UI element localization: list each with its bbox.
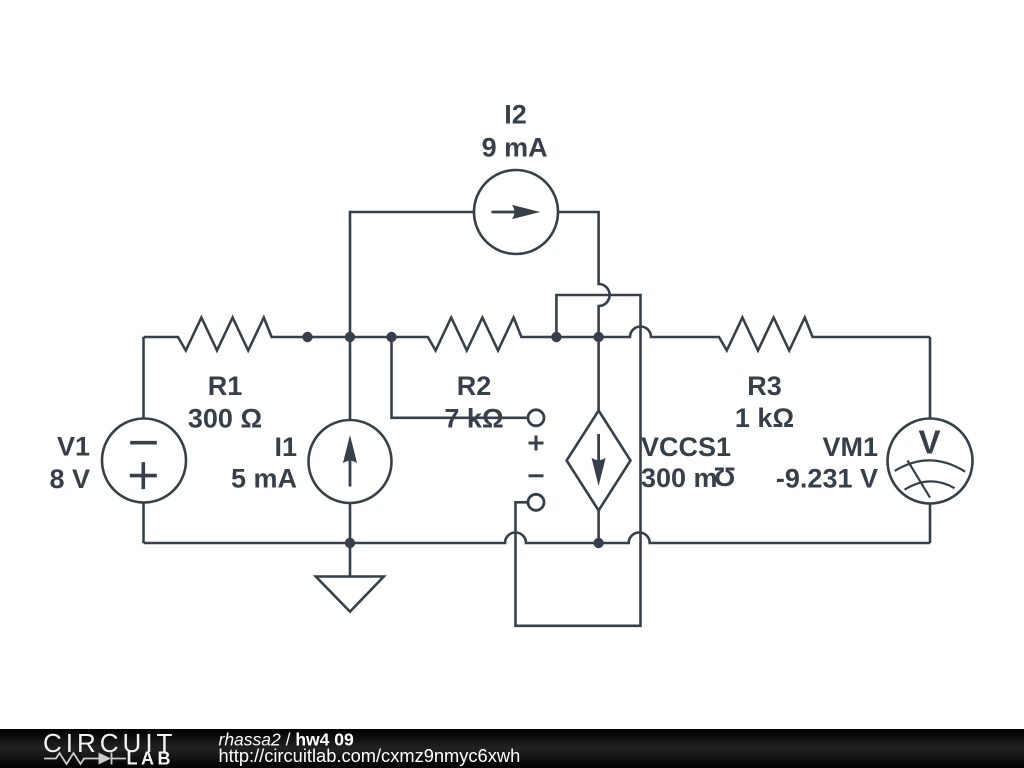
svg-text:1 kΩ: 1 kΩ <box>735 403 794 433</box>
svg-text:7 kΩ: 7 kΩ <box>444 404 503 434</box>
svg-text:VM1: VM1 <box>822 432 878 462</box>
svg-text:R1: R1 <box>208 371 243 401</box>
svg-text:300 m: 300 m <box>641 463 718 493</box>
svg-text:I1: I1 <box>274 432 297 462</box>
svg-text:300 Ω: 300 Ω <box>188 404 262 434</box>
svg-text:V: V <box>918 424 940 461</box>
svg-text:VCCS1: VCCS1 <box>641 432 731 462</box>
svg-text:R2: R2 <box>457 371 492 401</box>
svg-text:Ω: Ω <box>714 462 736 492</box>
svg-text:R3: R3 <box>747 371 782 401</box>
svg-text:LAB: LAB <box>127 749 175 768</box>
svg-text:8 V: 8 V <box>49 464 90 494</box>
svg-text:9 mA: 9 mA <box>482 132 548 162</box>
svg-text:5 mA: 5 mA <box>231 464 297 494</box>
svg-text:-9.231 V: -9.231 V <box>776 464 878 494</box>
svg-text:I2: I2 <box>504 100 527 130</box>
svg-text:V1: V1 <box>57 432 90 462</box>
svg-text:http://circuitlab.com/cxmz9nmy: http://circuitlab.com/cxmz9nmyc6xwh <box>219 745 521 766</box>
